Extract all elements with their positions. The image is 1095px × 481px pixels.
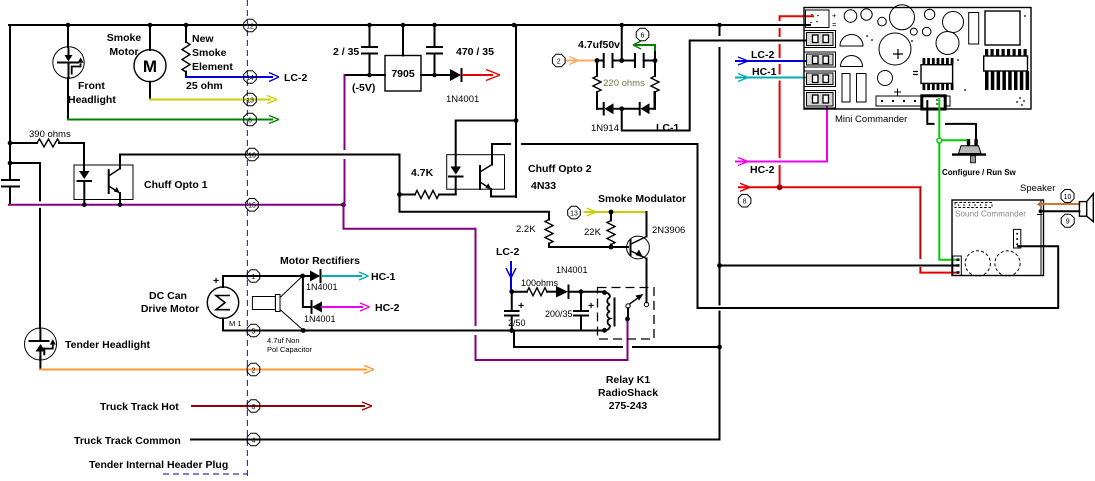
svg-text:1: 1 xyxy=(252,274,256,281)
transistor Q 2N3906 xyxy=(627,212,686,302)
mini commander IC U1 dip xyxy=(913,58,954,90)
sound commander aux connector 3pin xyxy=(1014,229,1021,248)
node junction dot motor bottom xyxy=(301,328,306,333)
svg-text:Drive Motor: Drive Motor xyxy=(141,303,199,315)
resistor R 220 ohms left xyxy=(593,61,601,109)
wire LC-2 feed to relay xyxy=(496,246,519,294)
svg-text:2N3906: 2N3906 xyxy=(652,225,685,236)
sound commander board outline xyxy=(952,200,1044,276)
mini commander connector block HC-2 xyxy=(804,91,836,109)
wire purple -5V vertical xyxy=(344,75,628,360)
wire opto2 bias to 2.2K xyxy=(400,195,550,220)
svg-text:13: 13 xyxy=(246,97,254,104)
svg-text:470 / 35: 470 / 35 xyxy=(456,46,494,58)
svg-text:LC-2: LC-2 xyxy=(751,49,774,61)
svg-text:Pol Capacitor: Pol Capacitor xyxy=(267,345,313,354)
svg-text:Front: Front xyxy=(78,80,105,92)
node 12 xyxy=(244,19,257,32)
svg-text:Tender Internal Header Plug: Tender Internal Header Plug xyxy=(89,459,228,471)
svg-text:4.7K: 4.7K xyxy=(411,167,434,179)
wire dashed header plug boundary xyxy=(163,0,247,477)
svg-text:2: 2 xyxy=(252,367,256,374)
wire +V branch to chuff opto 2 xyxy=(456,23,519,197)
capacitor C left of pair xyxy=(597,54,624,67)
svg-text:1N4001: 1N4001 xyxy=(556,265,588,275)
LED D1 Front Headlight xyxy=(53,25,84,120)
svg-text:12: 12 xyxy=(246,23,254,30)
wire dark red to sound commander xyxy=(920,187,957,272)
svg-text:LC-2: LC-2 xyxy=(284,72,307,84)
node 10 xyxy=(1061,190,1074,203)
wire branch to tender headlight xyxy=(10,163,40,328)
svg-text:+: + xyxy=(213,275,219,287)
svg-text:1N4001: 1N4001 xyxy=(306,282,338,292)
wire relay common to right rail xyxy=(514,331,720,348)
label Speaker xyxy=(1020,183,1055,194)
diode D 1N4001 HC-1 xyxy=(300,270,337,292)
wire node 2 orange xyxy=(40,366,374,374)
svg-text:Mini Commander: Mini Commander xyxy=(835,114,907,125)
mini commander transformer block xyxy=(969,11,1020,45)
node 13 xyxy=(244,93,257,106)
wire node 16 black xyxy=(120,154,400,156)
svg-text:DC Can: DC Can xyxy=(149,290,187,302)
label Sound Commander xyxy=(955,210,1026,219)
motor M1 DC can drive motor xyxy=(207,275,604,331)
svg-text:HC-2: HC-2 xyxy=(750,164,775,176)
wire node 4 truck track common xyxy=(74,435,720,447)
resistor R 220 ohms right xyxy=(603,61,659,109)
wire black to speaker xyxy=(1040,210,1079,212)
capacitor C right of pair xyxy=(622,54,658,67)
diode D 1N4001 HC-2 xyxy=(303,276,336,324)
mini commander board outline xyxy=(804,8,1031,110)
resistor R 22K xyxy=(584,212,615,247)
wire node 8 truck track hot xyxy=(100,401,372,413)
wire left rail xyxy=(9,25,11,205)
resistor R 2.2K xyxy=(516,220,553,248)
svg-text:Element: Element xyxy=(192,61,233,73)
label Chuff Opto 1 xyxy=(144,179,208,191)
diode D 1N914 right xyxy=(619,92,654,115)
wire black from mini commander to switch xyxy=(927,101,976,139)
svg-text:M 1: M 1 xyxy=(229,319,242,328)
label Smoke Motor xyxy=(107,32,142,58)
svg-text:Motor Rectifiers: Motor Rectifiers xyxy=(280,255,360,267)
wire opto2 collector net to sound board xyxy=(492,144,1058,308)
diode D 1N914 left xyxy=(597,103,622,115)
mini commander capacitors round xyxy=(840,5,964,86)
motor M smoke motor xyxy=(134,25,166,100)
node 8 xyxy=(247,400,260,413)
diode D 1N4001 relay xyxy=(556,265,605,298)
svg-text:2.2K: 2.2K xyxy=(516,224,536,235)
node 4 xyxy=(247,433,260,446)
wire node 15 purple rail xyxy=(9,202,346,207)
svg-text:+: + xyxy=(518,300,524,312)
node 6 upper xyxy=(636,28,649,41)
resistor R 100ohms xyxy=(512,278,559,296)
svg-text:220 ohms: 220 ohms xyxy=(603,78,645,89)
wire LC-2 blue node 14 xyxy=(186,72,307,84)
svg-text:HC-1: HC-1 xyxy=(752,66,777,78)
wire red riser to mini commander xyxy=(780,16,813,187)
svg-text:+: + xyxy=(832,11,837,20)
svg-text:2: 2 xyxy=(557,58,561,65)
svg-text:Chuff Opto 2: Chuff Opto 2 xyxy=(528,163,592,175)
svg-text:16: 16 xyxy=(248,152,256,159)
svg-text:HC-2: HC-2 xyxy=(375,302,400,314)
svg-text:Motor: Motor xyxy=(109,46,138,58)
node 2 xyxy=(247,363,260,376)
label 1N914 xyxy=(591,123,619,134)
wire green from mini commander xyxy=(937,99,969,260)
svg-text:Configure / Run Sw: Configure / Run Sw xyxy=(942,168,1017,177)
svg-text:4N33: 4N33 xyxy=(531,180,556,192)
svg-text:2/50: 2/50 xyxy=(508,318,526,328)
capacitor C 470/35 xyxy=(427,25,494,75)
svg-text:10: 10 xyxy=(1064,194,1072,201)
mini commander silk dots xyxy=(866,15,1026,106)
capacitor C 200/35 xyxy=(545,292,594,331)
speaker pins on sound commander xyxy=(1037,202,1043,215)
svg-text:390 ohms: 390 ohms xyxy=(29,129,71,140)
mini commander connector block LC-2 xyxy=(804,52,836,67)
wire base rail smoke modulator xyxy=(549,245,628,250)
svg-text:Tender Headlight: Tender Headlight xyxy=(65,339,150,351)
svg-text:Truck Track Common: Truck Track Common xyxy=(74,435,181,447)
wire main top rail xyxy=(9,24,810,26)
node 6 green tap xyxy=(633,41,655,61)
svg-text:(-5V): (-5V) xyxy=(352,82,375,94)
capacitor left filter xyxy=(2,180,19,187)
relay K1 switch xyxy=(625,259,649,322)
svg-text:8: 8 xyxy=(743,199,747,206)
label Smoke Modulator xyxy=(598,193,686,205)
svg-text:4: 4 xyxy=(252,437,256,444)
wire yellow node 13 xyxy=(150,96,277,104)
wire HC-1 cyan xyxy=(322,271,396,283)
node 14 xyxy=(244,71,257,84)
wire HC-2 to mini commander xyxy=(736,102,827,176)
mini commander connector block LC-1 xyxy=(804,31,836,48)
regulator U 7905 xyxy=(345,25,451,94)
opto-isolator U2 Chuff Opto 2 4N33 xyxy=(447,144,516,197)
LED D2 Tender Headlight xyxy=(25,328,57,370)
mini commander connector block HC-1 xyxy=(804,71,836,87)
wire HC-1 to mini commander xyxy=(736,66,825,82)
svg-text:4.7uf Non: 4.7uf Non xyxy=(267,336,300,345)
svg-text:2 / 35: 2 / 35 xyxy=(333,46,359,58)
svg-text:4.7uf50v: 4.7uf50v xyxy=(578,39,620,51)
svg-text:14: 14 xyxy=(246,75,254,82)
svg-text:M: M xyxy=(143,57,157,76)
node 13 mid xyxy=(568,206,581,219)
capacitor C 4.7uf non-pol xyxy=(252,277,312,354)
sound commander pin header dashed xyxy=(955,203,992,208)
label Relay K1 RadioShack 275-243 xyxy=(598,374,658,412)
mini commander IC U2 dip xyxy=(984,49,1029,90)
relay K1 dashed enclosure xyxy=(598,288,655,340)
wire right rail vertical xyxy=(717,25,722,440)
svg-text:=: = xyxy=(832,20,837,29)
speaker SP1 xyxy=(1079,194,1093,222)
mini commander cap polarity marks xyxy=(893,49,903,96)
svg-text:25 ohm: 25 ohm xyxy=(186,80,223,92)
svg-text:15: 15 xyxy=(248,203,256,210)
label New Smoke Element xyxy=(186,33,233,92)
label Mini Commander xyxy=(835,114,907,125)
node 16 xyxy=(246,148,259,161)
sound commander input connector xyxy=(953,256,962,276)
wire orange to speaker xyxy=(1040,203,1079,205)
node 6 xyxy=(244,113,257,126)
resistor new smoke element 25 ohm xyxy=(182,25,190,77)
svg-text:13: 13 xyxy=(570,210,578,217)
diode D 1N4001 output xyxy=(446,69,500,105)
node junction dots top rail xyxy=(66,23,722,28)
svg-text:7905: 7905 xyxy=(391,68,415,80)
wire LC-1 net xyxy=(622,41,828,135)
wire HC-2 magenta xyxy=(322,302,400,314)
svg-text:6: 6 xyxy=(641,32,645,39)
svg-text:6: 6 xyxy=(248,117,252,124)
svg-text:Smoke: Smoke xyxy=(192,47,227,59)
svg-text:Relay K1: Relay K1 xyxy=(606,374,651,386)
node 1 xyxy=(247,270,260,283)
mini commander standup resistors xyxy=(842,74,866,103)
svg-text:275-243: 275-243 xyxy=(609,400,648,412)
svg-text:200/35: 200/35 xyxy=(545,309,573,319)
resistor R 4.7K xyxy=(397,155,456,199)
capacitor C 2/50 xyxy=(505,292,526,333)
mini commander bottom header strip xyxy=(876,96,950,106)
svg-text:Chuff Opto 1: Chuff Opto 1 xyxy=(144,179,208,191)
svg-text:LC-2: LC-2 xyxy=(496,246,519,258)
svg-text:RadioShack: RadioShack xyxy=(598,387,658,399)
label DC Can Drive Motor xyxy=(141,290,199,315)
svg-text:Truck Track Hot: Truck Track Hot xyxy=(100,401,179,413)
svg-text:Speaker: Speaker xyxy=(1020,183,1055,194)
mini commander output connector xyxy=(922,96,945,109)
svg-text:HC-1: HC-1 xyxy=(371,271,396,283)
capacitor C 4.7uf50v loop with 220 ohms and 1N914 xyxy=(578,25,622,61)
label Front Headlight xyxy=(68,80,116,106)
label Tender Internal Header Plug xyxy=(89,459,228,471)
svg-text:8: 8 xyxy=(252,404,256,411)
label Chuff Opto 2 4N33 xyxy=(528,163,592,192)
capacitor C 2/35 xyxy=(333,25,377,75)
node 15 xyxy=(246,199,259,212)
node 2 orange tap xyxy=(566,57,599,65)
svg-text:1N914: 1N914 xyxy=(591,123,619,134)
node 13 smoke modulator yellow xyxy=(585,208,646,216)
svg-text:1N4001: 1N4001 xyxy=(304,314,336,324)
opto-isolator U Chuff Opto 1 xyxy=(74,143,133,204)
node 9 xyxy=(1061,214,1074,227)
sound commander speaker cutouts dashed xyxy=(965,251,1020,276)
svg-text:22K: 22K xyxy=(584,227,602,238)
svg-text:Sound Commander: Sound Commander xyxy=(955,210,1026,219)
wire green node 6 xyxy=(68,116,279,124)
svg-text:1N4001: 1N4001 xyxy=(446,94,479,105)
node 2 upper xyxy=(552,54,565,67)
mini commander power header xyxy=(806,10,838,29)
wire black to sound commander xyxy=(720,265,958,267)
svg-text:Smoke: Smoke xyxy=(107,32,142,44)
resistor R 390 ohms xyxy=(8,129,84,165)
label Motor Rectifiers xyxy=(280,255,360,267)
label Tender Headlight xyxy=(65,339,150,351)
svg-text:Smoke Modulator: Smoke Modulator xyxy=(598,193,686,205)
wire LC-2 to mini commander xyxy=(736,49,825,65)
node 8 right xyxy=(738,194,751,207)
svg-text:LC-1: LC-1 xyxy=(656,122,679,134)
svg-text:+: + xyxy=(588,300,594,312)
wire node 8 red to boards xyxy=(739,183,920,191)
switch SW configure / run xyxy=(942,139,1017,177)
node 5 xyxy=(247,324,260,337)
relay K1 coil xyxy=(602,290,614,333)
svg-text:5: 5 xyxy=(252,328,256,335)
svg-text:Headlight: Headlight xyxy=(68,94,116,106)
svg-text:New: New xyxy=(192,33,214,45)
svg-text:100ohms: 100ohms xyxy=(521,278,559,288)
svg-text:9: 9 xyxy=(1066,219,1070,226)
